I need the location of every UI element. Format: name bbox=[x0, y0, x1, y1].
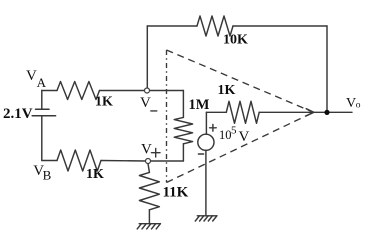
svg-text:V: V bbox=[26, 68, 37, 84]
svg-text:V: V bbox=[140, 95, 151, 111]
svg-text:10K: 10K bbox=[223, 33, 248, 48]
svg-text:A: A bbox=[37, 75, 47, 90]
svg-text:10: 10 bbox=[219, 128, 232, 142]
svg-text:1K: 1K bbox=[95, 94, 113, 109]
svg-text:B: B bbox=[43, 168, 52, 183]
svg-text:11K: 11K bbox=[163, 185, 189, 201]
svg-text:o: o bbox=[356, 101, 361, 111]
svg-text:V: V bbox=[141, 142, 152, 158]
svg-text:2.1V: 2.1V bbox=[3, 106, 33, 122]
svg-text:5: 5 bbox=[231, 125, 237, 137]
svg-text:V: V bbox=[346, 96, 356, 111]
svg-text:1M: 1M bbox=[189, 97, 210, 113]
svg-text:1K: 1K bbox=[86, 167, 104, 182]
svg-text:V: V bbox=[239, 129, 250, 145]
svg-text:1K: 1K bbox=[218, 83, 236, 98]
